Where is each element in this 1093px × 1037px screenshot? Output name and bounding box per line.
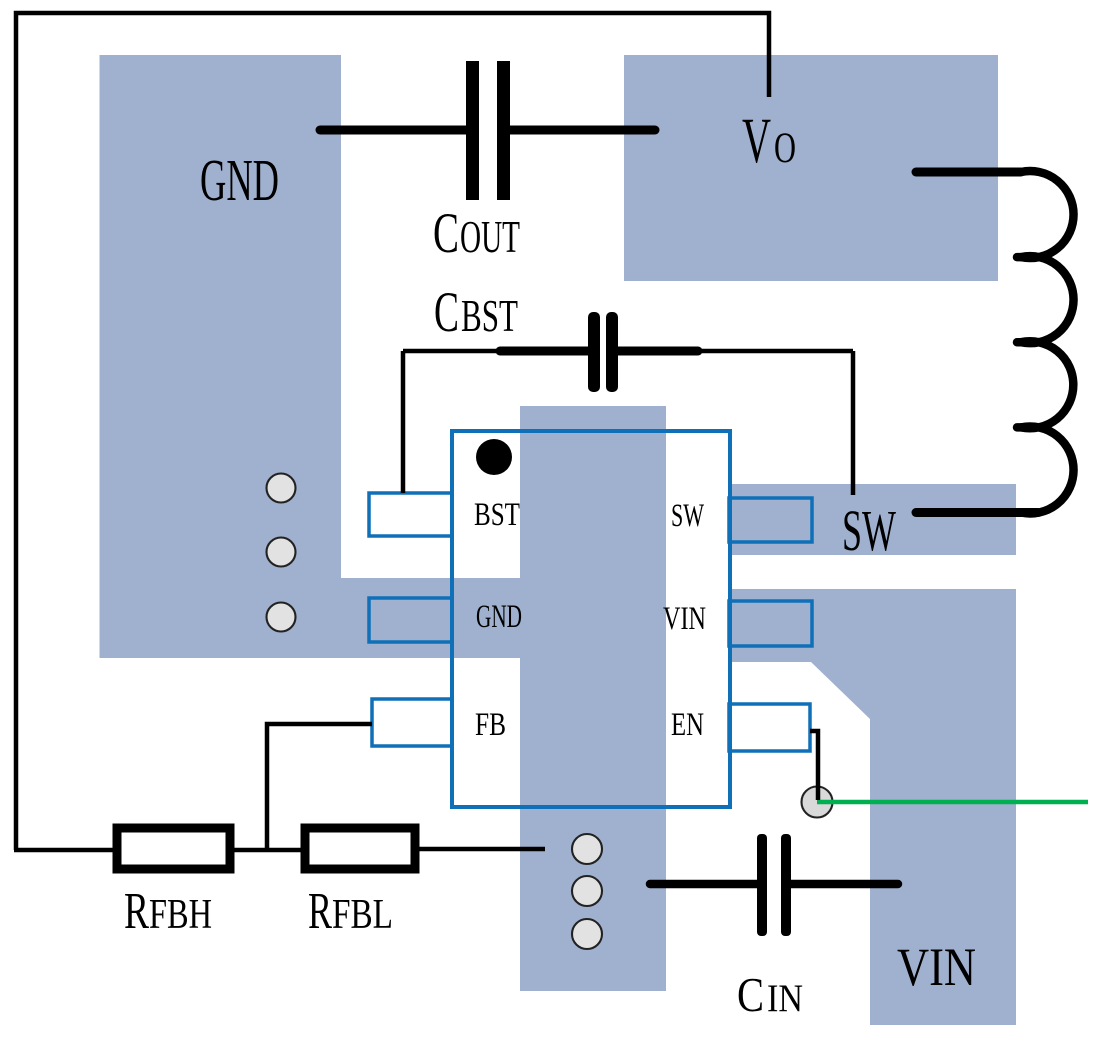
pin SW — [729, 498, 812, 542]
svg-text:V: V — [742, 105, 771, 177]
pin EN — [729, 704, 810, 751]
inductor L1 — [916, 171, 1074, 513]
svg-text:R: R — [124, 883, 149, 940]
wire EN to via — [810, 731, 818, 800]
copper pour VIN region — [731, 589, 1016, 1025]
wire to RFBH — [14, 848, 115, 853]
svg-text:O: O — [774, 125, 796, 172]
svg-text:R: R — [308, 883, 332, 940]
copper pour GND plane — [100, 55, 342, 658]
resistor RFBH — [117, 828, 230, 869]
svg-text:EN: EN — [671, 707, 704, 743]
IC U1 body — [452, 431, 730, 807]
pin FB — [372, 699, 452, 746]
wire FB — [267, 724, 372, 848]
copper pour center strip — [520, 406, 666, 991]
pin VIN — [729, 601, 812, 646]
svg-text:VIN: VIN — [663, 601, 706, 637]
svg-text:C: C — [434, 281, 459, 344]
wire RFBL to strip — [417, 847, 545, 852]
pin GND — [369, 598, 452, 642]
svg-text:SW: SW — [842, 498, 896, 563]
svg-text:BST: BST — [461, 291, 518, 341]
wire CBST right to SW — [851, 351, 856, 495]
svg-text:FB: FB — [475, 707, 506, 743]
svg-text:BST: BST — [474, 497, 520, 533]
via strip 1 — [572, 834, 602, 864]
svg-text:VIN: VIN — [897, 937, 976, 997]
svg-text:GND: GND — [200, 147, 279, 213]
copper pour GND band to IC — [341, 578, 522, 658]
svg-text:OUT: OUT — [460, 212, 520, 262]
copper pour SW band — [731, 484, 1016, 555]
svg-text:C: C — [737, 967, 764, 1022]
svg-text:GND: GND — [476, 599, 522, 635]
wire RFBH to RFBL — [232, 848, 303, 853]
via GND 1 — [267, 474, 296, 503]
svg-text:FBL: FBL — [332, 892, 393, 938]
via GND 3 — [267, 603, 296, 632]
svg-text:FBH: FBH — [149, 892, 212, 938]
copper pour Vo region — [624, 55, 998, 281]
wire CBST left to BST — [401, 351, 406, 493]
pin BST — [369, 493, 452, 536]
via GND 2 — [267, 538, 296, 567]
green net EN — [817, 800, 1088, 805]
via strip 3 — [572, 919, 602, 949]
pin 1 dot — [476, 439, 512, 475]
resistor RFBL — [305, 828, 415, 869]
svg-text:IN: IN — [767, 977, 803, 1020]
wire top frame — [16, 13, 769, 850]
capacitor CBST — [403, 312, 853, 392]
capacitor COUT — [320, 61, 655, 200]
via strip 2 — [572, 876, 602, 906]
svg-text:SW: SW — [671, 498, 705, 534]
via EN — [802, 787, 833, 818]
svg-text:C: C — [433, 202, 459, 265]
capacitor CIN — [650, 834, 898, 936]
